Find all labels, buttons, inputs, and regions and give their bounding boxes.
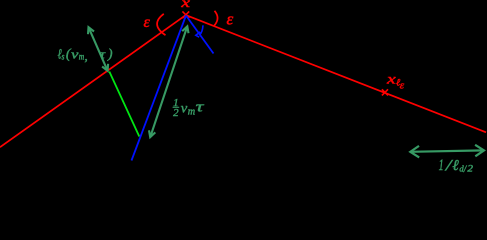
left interval arc ( bbox=[157, 14, 165, 35]
svg-text:x: x bbox=[180, 0, 191, 11]
wire: blue right characteristic bbox=[186, 16, 214, 54]
wire: green segment along l_s direction bbox=[109, 72, 139, 137]
svg-text:x: x bbox=[386, 71, 396, 86]
label 1/l_d/2 bbox=[439, 157, 474, 174]
svg-text:v: v bbox=[71, 46, 79, 61]
arrow l_s double-headed bbox=[88, 27, 108, 71]
svg-text:ε: ε bbox=[400, 79, 405, 91]
node x_l marker bbox=[382, 89, 388, 95]
label l_s(v_m, tau) bbox=[58, 46, 113, 63]
wire: red velocity profile right segment bbox=[186, 15, 486, 132]
svg-text:,: , bbox=[85, 49, 88, 64]
svg-text:ℓ: ℓ bbox=[452, 158, 459, 174]
right interval arc ) bbox=[214, 11, 217, 26]
wire: blue left characteristic bbox=[132, 16, 187, 161]
node x-bar peak marker bbox=[182, 11, 189, 18]
svg-text:s: s bbox=[62, 52, 65, 62]
svg-text:m: m bbox=[188, 107, 195, 118]
label half v_m tau bbox=[173, 97, 205, 119]
wire: red velocity profile left segment bbox=[0, 15, 186, 147]
svg-text:2: 2 bbox=[173, 107, 179, 119]
svg-text:2: 2 bbox=[467, 163, 473, 173]
svg-text:): ) bbox=[107, 47, 113, 62]
svg-text:ε: ε bbox=[227, 10, 234, 29]
arrow half-v_m-tau double-headed bbox=[149, 26, 189, 137]
node x_l label bbox=[386, 71, 405, 91]
blue angle arrow bbox=[196, 25, 203, 37]
svg-text:ε: ε bbox=[144, 14, 151, 31]
svg-text:τ: τ bbox=[196, 100, 205, 116]
arrow 1/l_d2 double-headed bbox=[410, 145, 484, 158]
svg-text:1: 1 bbox=[439, 157, 444, 174]
